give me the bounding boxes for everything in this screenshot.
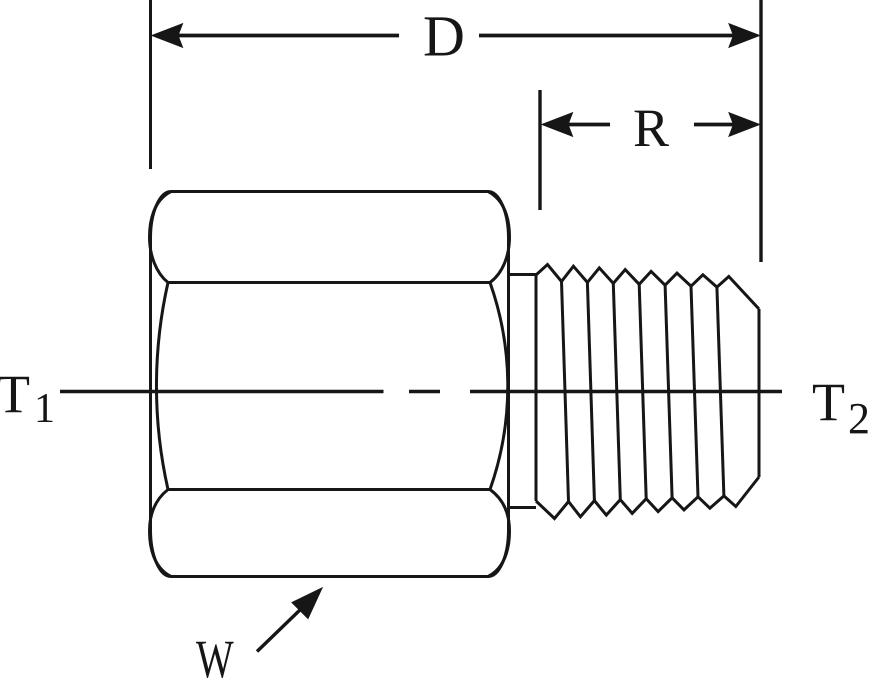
arrowhead D left bbox=[152, 24, 183, 47]
pipe end face (right) bbox=[758, 309, 761, 477]
arrowhead D right bbox=[729, 24, 760, 47]
thread flank line 7 bbox=[717, 287, 724, 496]
centerline through fitting axis bbox=[60, 390, 384, 393]
thread flank line 2 bbox=[587, 282, 594, 500]
thread flank line 4 bbox=[639, 284, 646, 498]
hex bottom face left end arc bbox=[150, 490, 172, 577]
svg-text:2: 2 bbox=[848, 394, 869, 443]
thread flank line 3 bbox=[613, 283, 620, 499]
thread flank line 1 bbox=[562, 282, 569, 502]
arrowhead R left bbox=[542, 113, 573, 136]
leader line for W bbox=[257, 607, 303, 652]
hex lower face boundary line bbox=[168, 488, 490, 491]
svg-text:D: D bbox=[423, 4, 465, 69]
arrowhead R right bbox=[729, 113, 760, 136]
extension line left (dimension D) bbox=[149, 0, 152, 169]
hex upper face boundary line bbox=[168, 281, 490, 284]
hex bottom face right end arc bbox=[488, 490, 510, 577]
svg-text:T: T bbox=[812, 372, 845, 432]
extension line for R (left) bbox=[538, 90, 541, 210]
dimension line R left segment bbox=[566, 123, 610, 127]
svg-text:R: R bbox=[633, 98, 669, 158]
hex middle face left chamfer arc bbox=[156, 283, 168, 490]
svg-text:1: 1 bbox=[34, 386, 55, 432]
svg-text:T: T bbox=[0, 364, 30, 424]
extension line right (dimensions D and R) bbox=[759, 0, 762, 262]
dimension line D right segment bbox=[479, 34, 737, 38]
svg-text:W: W bbox=[196, 630, 234, 681]
thread bottom crest profile bbox=[536, 477, 759, 519]
dimension line D left segment bbox=[176, 34, 399, 38]
hex top face right end arc bbox=[488, 192, 510, 283]
thread flank line 6 bbox=[691, 286, 698, 497]
thread flank line 5 bbox=[665, 285, 672, 498]
dimension line R right segment bbox=[694, 123, 737, 127]
thread start edge bbox=[535, 275, 538, 501]
collar top edge bbox=[509, 273, 537, 276]
hex middle face right chamfer arc bbox=[490, 283, 508, 490]
collar bottom edge bbox=[509, 506, 537, 509]
thread top crest profile bbox=[536, 265, 759, 310]
leader arrowhead W bbox=[292, 588, 322, 619]
hex body silhouette (rounded outline) bbox=[151, 192, 509, 577]
hex top face left end arc bbox=[150, 192, 172, 283]
